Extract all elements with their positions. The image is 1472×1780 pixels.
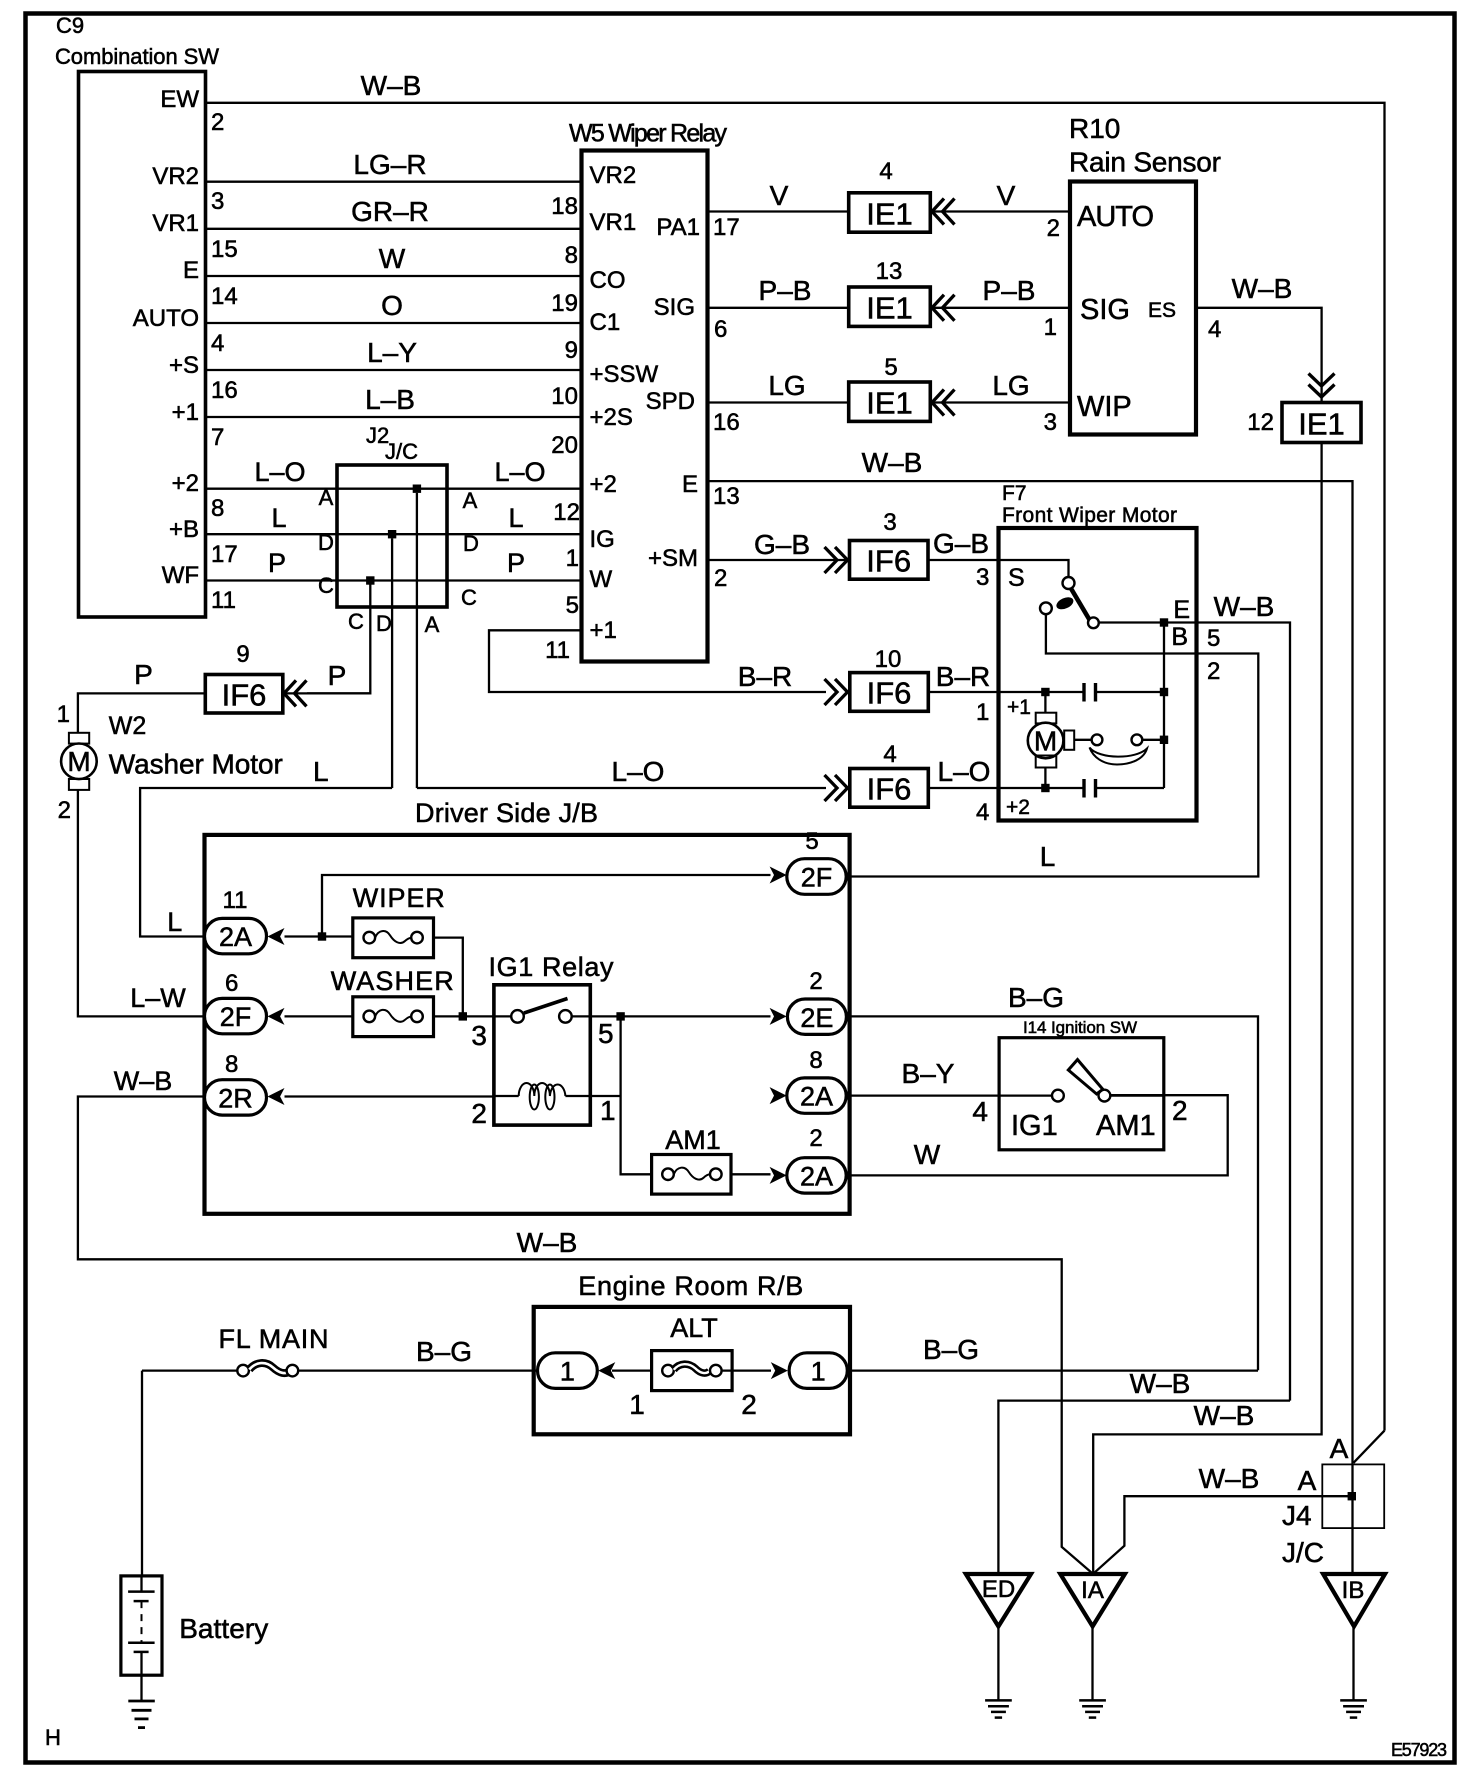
fuse WASHER label [331, 966, 454, 996]
svg-text:IE1: IE1 [866, 291, 913, 326]
connector IE1 (PA1 row) [849, 193, 931, 232]
svg-text:VR2: VR2 [590, 162, 637, 189]
svg-text:+2: +2 [1006, 796, 1030, 819]
svg-text:P: P [268, 548, 286, 578]
node capacitor-E vertical junction [1160, 688, 1168, 696]
svg-text:+S: +S [169, 352, 199, 379]
wire S to park switch contact [999, 560, 1069, 577]
svg-text:AUTO: AUTO [1077, 201, 1154, 233]
connector number 11 above 2A [223, 887, 248, 914]
combination switch box C9 [79, 72, 206, 618]
rain sensor box R10 [1070, 182, 1196, 435]
svg-text:AM1: AM1 [665, 1125, 721, 1155]
svg-text:M: M [67, 746, 90, 777]
pin E [183, 257, 199, 284]
connector 2A (wiper feed) [205, 918, 267, 953]
junction connector J2 J/C box [337, 465, 447, 607]
connector 2A 8 [787, 1078, 846, 1113]
svg-text:13: 13 [876, 258, 903, 285]
connector IE1 12 [1282, 403, 1361, 443]
J2 bottom terminal letter D [376, 611, 392, 636]
svg-text:10: 10 [875, 646, 902, 673]
wire from IG1 pin 1 down to AM1 fuse [590, 1016, 651, 1174]
park switch arm [1071, 589, 1092, 625]
svg-text:AM1: AM1 [1096, 1110, 1156, 1142]
svg-text:2: 2 [1172, 1095, 1188, 1126]
rain pin WIP [1077, 391, 1132, 423]
svg-text:1: 1 [1044, 314, 1057, 341]
svg-text:+1: +1 [1007, 696, 1031, 719]
svg-text:4: 4 [883, 741, 896, 768]
svg-text:B: B [1171, 623, 1188, 651]
W5 pin number 18 [551, 193, 578, 220]
W5 pin +2 [590, 471, 617, 498]
arrow male into 2A 2 [770, 1167, 787, 1184]
W5 pin number 12 [553, 499, 580, 526]
svg-text:3: 3 [471, 1020, 487, 1051]
IG1 pin number 5 [598, 1018, 614, 1049]
chevron female left (IE1 PA1) [932, 199, 955, 225]
pin number 4 (I14 IG1) [972, 1096, 988, 1127]
svg-text:2: 2 [471, 1098, 487, 1129]
svg-text:CO: CO [590, 267, 626, 294]
svg-text:L–Y: L–Y [367, 337, 417, 368]
park switch contact S [1063, 577, 1075, 589]
ignition pin AM1 label [1096, 1110, 1156, 1142]
pin number 7 (+1) [211, 424, 224, 451]
svg-text:EW: EW [160, 86, 199, 113]
wire from 2R to IG1 relay pin 2 [285, 1095, 494, 1097]
W5 pin number 17 [713, 214, 740, 241]
W5 pin +1 [590, 617, 617, 644]
capacitor lower (F7) [1084, 779, 1164, 798]
svg-text:2: 2 [714, 565, 727, 592]
svg-text:VR1: VR1 [590, 209, 637, 236]
W5 pin +SSW [590, 361, 659, 388]
fusible link FL MAIN label [219, 1324, 329, 1354]
fuse AM1 [652, 1155, 731, 1195]
svg-text:A: A [425, 612, 440, 637]
svg-text:5: 5 [805, 828, 818, 855]
wire W-B from IE1 12 down to IA branch [1093, 443, 1321, 1574]
svg-text:B–R: B–R [936, 661, 990, 692]
svg-text:P: P [507, 548, 525, 578]
svg-text:V: V [997, 180, 1016, 211]
svg-text:W–B: W–B [517, 1227, 578, 1258]
wire W (E to CO) [206, 243, 582, 276]
svg-text:4: 4 [211, 330, 224, 357]
W5 pin IG [590, 526, 615, 553]
connector number 4 above IE1 [879, 158, 892, 185]
worm crescent [1090, 748, 1148, 765]
chevron male right (IF6 10) [825, 679, 848, 705]
svg-text:W–B: W–B [1214, 591, 1275, 622]
arrow male into connector 1 right [771, 1362, 788, 1379]
ground triangle IB [1323, 1574, 1385, 1626]
svg-text:2R: 2R [218, 1084, 253, 1114]
svg-text:W: W [914, 1139, 941, 1170]
svg-text:B–G: B–G [1008, 982, 1064, 1013]
svg-text:W: W [379, 243, 406, 274]
washer motor M symbol [61, 733, 97, 790]
svg-text:SIG: SIG [654, 294, 695, 321]
node wiper fuse junction [318, 932, 326, 940]
F7 +1 label [1007, 696, 1031, 719]
pin number 4 (F7 +2) [976, 799, 989, 826]
svg-text:4: 4 [1208, 316, 1221, 343]
svg-text:2A: 2A [219, 922, 252, 952]
wire W-B from EW to right side [206, 70, 1385, 1463]
battery [121, 1576, 162, 1675]
pin EW [160, 86, 199, 113]
wire P from IF6 9 to washer motor [78, 659, 205, 733]
node E junction [1160, 618, 1168, 626]
W5 pin number 5 [566, 592, 579, 619]
vertical bus inside F7 [1163, 623, 1165, 789]
chevron male down (IE1 12) [1309, 374, 1335, 398]
wire LG from IE1 to rain sensor WIP [930, 370, 1070, 403]
chevron male right (IF6 4) [825, 775, 848, 801]
svg-text:D: D [463, 531, 479, 556]
svg-text:L: L [313, 756, 329, 787]
svg-text:IF6: IF6 [867, 676, 912, 711]
wire AM1 fuse to 2A 2 [731, 1173, 771, 1175]
svg-text:IA: IA [1081, 1577, 1104, 1604]
pin number 14 (E) [211, 283, 238, 310]
svg-text:8: 8 [565, 242, 578, 269]
svg-text:IF6: IF6 [222, 677, 267, 712]
wire from WIPER fuse to relay branch [434, 938, 463, 1017]
svg-text:F7: F7 [1002, 482, 1027, 505]
svg-text:VR2: VR2 [152, 163, 199, 190]
pin number 3 (VR2) [211, 188, 224, 215]
svg-text:B–Y: B–Y [902, 1058, 955, 1089]
svg-text:C9: C9 [56, 13, 84, 38]
svg-text:9: 9 [236, 641, 249, 668]
svg-text:W: W [590, 566, 613, 593]
connector 2F 5 [787, 859, 846, 895]
pin number 3 (rain WIP) [1044, 409, 1057, 436]
W5 pin +2S [590, 404, 633, 431]
svg-text:2: 2 [809, 1125, 822, 1152]
svg-text:W–B: W–B [1194, 1400, 1255, 1431]
svg-text:2A: 2A [800, 1082, 833, 1112]
chevron female left (IF6 9) [284, 680, 307, 706]
connector IF6 (B-R row) [850, 673, 929, 712]
svg-text:L: L [167, 907, 182, 937]
svg-text:LG: LG [768, 370, 805, 401]
svg-text:W5 Wiper Relay: W5 Wiper Relay [569, 120, 728, 148]
pin number 2 (rain AUTO) [1047, 215, 1060, 242]
fuse WASHER [353, 997, 434, 1037]
svg-text:E: E [682, 471, 698, 498]
svg-text:IG1 Relay: IG1 Relay [489, 952, 615, 982]
W5 pin number 6 [714, 316, 727, 343]
front wiper motor box F7 [999, 528, 1197, 821]
svg-text:W2: W2 [109, 712, 147, 740]
J2 terminal letter D right [463, 531, 479, 556]
relay W5 Wiper Relay label [569, 120, 728, 148]
IG1 relay switch arm [524, 999, 568, 1014]
svg-text:G–B: G–B [933, 528, 989, 559]
svg-text:L–B: L–B [365, 384, 415, 415]
svg-text:WIP: WIP [1077, 391, 1132, 423]
pin number 1 (rain SIG) [1044, 314, 1057, 341]
svg-text:L–O: L–O [938, 756, 991, 787]
wire from 2A to WIPER fuse [285, 935, 353, 937]
svg-text:P–B: P–B [759, 275, 812, 306]
wire from FL MAIN down to battery [141, 1371, 143, 1576]
svg-text:4: 4 [976, 799, 989, 826]
connector 2E [787, 999, 846, 1034]
svg-text:ES: ES [1148, 299, 1176, 322]
wire G-B from IF6 to F7 S pin [928, 528, 999, 560]
relay IG1 box [494, 985, 590, 1125]
connector IF6 (L-O row) [850, 769, 929, 808]
svg-text:Battery: Battery [179, 1613, 268, 1644]
page letter H [45, 1725, 61, 1750]
pin number 2 (I14 AM1) [1172, 1095, 1188, 1126]
svg-text:16: 16 [211, 377, 238, 404]
ground triangle IA [1060, 1574, 1125, 1626]
node washer-wiper junction [459, 1012, 467, 1020]
J2 terminal letter D left [318, 530, 334, 555]
svg-text:Engine Room R/B: Engine Room R/B [578, 1271, 803, 1301]
connector 2R [205, 1080, 267, 1115]
connector number 4 above IF6 [883, 741, 896, 768]
wire W-B from ED branch to ED ground [998, 1368, 1290, 1573]
ground ED [985, 1700, 1012, 1717]
svg-text:3: 3 [883, 509, 896, 536]
svg-text:+SSW: +SSW [590, 361, 659, 388]
wire to ALT fuse [612, 1369, 652, 1371]
svg-text:IE1: IE1 [866, 197, 913, 232]
J4 J/C label [1282, 1537, 1324, 1568]
wiper motor M symbol [1028, 692, 1074, 788]
ground IB [1340, 1700, 1367, 1717]
wire IB to ground [1352, 1626, 1354, 1700]
wire W from ignition AM1 to 2A 2 [846, 1095, 1227, 1175]
park switch moving blob [1055, 595, 1076, 612]
connector number 8 above 2A [225, 1051, 238, 1078]
svg-text:IF6: IF6 [867, 772, 912, 807]
wire P from J2 C to IF6 9 [284, 660, 370, 693]
svg-text:5: 5 [1207, 625, 1220, 652]
arrow female at connector 1 [598, 1362, 615, 1379]
svg-text:3: 3 [211, 188, 224, 215]
IG1 pin number 3 [471, 1020, 487, 1051]
wire V from PA1 to IE1 [708, 180, 849, 212]
IG1 relay contact right [559, 1010, 590, 1023]
wire LG from SPD to IE1 [708, 370, 849, 403]
svg-text:IF6: IF6 [866, 544, 911, 579]
svg-text:1: 1 [811, 1357, 826, 1387]
chevron female left (IE1 SIG) [932, 295, 955, 321]
pin number 1 (ALT left) [629, 1389, 645, 1420]
connector number 5 above 2F [805, 828, 818, 855]
W5 pin number 1 [566, 545, 579, 572]
svg-text:IG1: IG1 [1011, 1110, 1058, 1142]
battery label [179, 1613, 268, 1644]
wire label L-W [130, 983, 186, 1013]
wire from ignition AM1 contact to box edge [1110, 1094, 1164, 1096]
svg-text:20: 20 [551, 432, 578, 459]
wire W-B from 2R to IA ground [78, 1066, 1092, 1573]
svg-text:VR1: VR1 [152, 210, 199, 237]
pin +1 [172, 399, 199, 426]
pin number 2 (washer motor) [58, 797, 71, 824]
svg-text:WIPER: WIPER [353, 883, 445, 913]
W5 pin VR2 [590, 162, 637, 189]
wire L-O from IF6 to F7 +2 [928, 756, 998, 788]
wire P (WF row through J2) [206, 548, 582, 581]
arrow male into 2F 5 [770, 867, 787, 884]
svg-text:C: C [318, 573, 334, 598]
svg-text:7: 7 [211, 424, 224, 451]
svg-text:IE1: IE1 [1298, 407, 1345, 442]
svg-text:5: 5 [598, 1018, 614, 1049]
W5 pin number 2 [714, 565, 727, 592]
wire V from IE1 to rain sensor AUTO [930, 180, 1070, 212]
wire +2 row inside F7 [999, 787, 1085, 789]
svg-text:Combination SW: Combination SW [55, 44, 219, 69]
fuse ALT (fusible link) [652, 1351, 733, 1391]
W5 pin +SM [648, 545, 698, 572]
wire P-B from IE1 to rain sensor SIG [930, 275, 1070, 308]
pin number 4 (AUTO) [211, 330, 224, 357]
wire L (+B row through J2) [206, 503, 582, 534]
ground IA [1079, 1700, 1106, 1717]
pin +S [169, 352, 199, 379]
svg-text:5: 5 [566, 592, 579, 619]
figure number E57923 [1391, 1740, 1447, 1760]
junction connector J2 label [366, 423, 418, 464]
pin number 2 (EW) [211, 109, 224, 136]
svg-text:Washer Motor: Washer Motor [109, 749, 283, 780]
W5 pin number 19 [551, 290, 578, 317]
svg-text:B–R: B–R [738, 661, 792, 692]
ignition pin IG1 label [1011, 1110, 1058, 1142]
driver side J/B box [205, 835, 850, 1214]
svg-text:2: 2 [1207, 658, 1220, 685]
svg-text:IB: IB [1342, 1577, 1365, 1604]
W5 pin number 13 [713, 483, 740, 510]
connector IF6 (G-B row) [850, 541, 929, 580]
W5 pin W [590, 566, 613, 593]
svg-text:A: A [319, 485, 334, 510]
wire W-B from F7 E pin 5 down to ED branch [1197, 591, 1291, 1401]
svg-text:+2S: +2S [590, 404, 633, 431]
J4 terminal letter A left [1298, 1465, 1317, 1496]
park switch contact B [1040, 602, 1052, 614]
svg-text:1: 1 [600, 1095, 616, 1126]
svg-text:2F: 2F [220, 1002, 252, 1032]
connector number 9 above IF6 [236, 641, 249, 668]
svg-text:E: E [1173, 596, 1190, 624]
pin AUTO [133, 305, 199, 332]
svg-text:11: 11 [545, 637, 570, 664]
svg-text:J/C: J/C [1282, 1537, 1324, 1568]
svg-text:WF: WF [162, 562, 199, 589]
svg-text:LG–R: LG–R [353, 149, 426, 180]
pin number 2 (ALT right) [741, 1389, 757, 1420]
wire L-O (+2 row through J2) [206, 457, 582, 489]
pin number 17 (+B) [211, 541, 238, 568]
W5 pin SIG [654, 294, 695, 321]
svg-text:H: H [45, 1725, 61, 1750]
svg-text:17: 17 [713, 214, 740, 241]
wire D vertical from J2 to L wire [391, 538, 393, 788]
pin number 16 (+S) [211, 377, 238, 404]
pin number 15 (VR1) [211, 236, 238, 263]
svg-text:M: M [1034, 726, 1057, 757]
svg-text:V: V [770, 180, 789, 211]
svg-text:Driver Side J/B: Driver Side J/B [415, 798, 598, 828]
arrow female at 2R [268, 1088, 285, 1105]
svg-text:L: L [271, 503, 286, 533]
wire G-B from W5 +SM to IF6 [708, 529, 850, 560]
svg-text:8: 8 [225, 1051, 238, 1078]
wire O (AUTO to C1) [206, 290, 582, 323]
svg-text:1: 1 [566, 545, 579, 572]
connector number 3 above IF6 [883, 509, 896, 536]
W5 pin number 11 [545, 637, 570, 664]
J2 terminal letter C left [318, 573, 334, 598]
connector label C9 [56, 13, 84, 38]
junction connector J4 box [1322, 1464, 1384, 1528]
wire L-B (+1 to +2S) [206, 384, 582, 417]
svg-text:1: 1 [57, 701, 70, 728]
connector number 6 above 2F [225, 970, 238, 997]
connector IE1 (SIG row) [849, 287, 931, 326]
pin number 3 (F7 S) [976, 564, 989, 591]
IG1 pin number 1 [600, 1095, 616, 1126]
svg-text:6: 6 [225, 970, 238, 997]
svg-text:+SM: +SM [648, 545, 698, 572]
wire ALT to connector 1 right [722, 1369, 771, 1371]
washer motor label [109, 749, 283, 780]
svg-text:IE1: IE1 [866, 386, 913, 421]
connector number 12 [1247, 409, 1274, 436]
svg-text:2F: 2F [801, 863, 833, 893]
svg-text:15: 15 [211, 236, 238, 263]
W5 pin number 20 [551, 432, 578, 459]
svg-text:C: C [348, 609, 364, 634]
F7 pin E label [1173, 596, 1190, 624]
connector IF6 9 (washer P) [205, 675, 282, 714]
svg-text:A: A [1298, 1465, 1317, 1496]
wire B-R from IF6 to F7 +1 [928, 661, 998, 692]
svg-text:LG: LG [992, 370, 1029, 401]
svg-text:IG: IG [590, 526, 615, 553]
worm gear contacts [1074, 734, 1164, 745]
svg-text:6: 6 [714, 316, 727, 343]
capacitor upper (F7) [1084, 683, 1164, 702]
motor Front Wiper Motor label [1002, 504, 1177, 527]
F7 pin B label [1171, 623, 1188, 651]
svg-text:E: E [183, 257, 199, 284]
svg-text:12: 12 [553, 499, 580, 526]
svg-text:Rain Sensor: Rain Sensor [1069, 147, 1221, 178]
fuse WIPER [353, 918, 434, 958]
pin VR1 [152, 210, 199, 237]
W5 pin number 9 [565, 337, 578, 364]
F7 +2 label [1006, 796, 1030, 819]
svg-text:2: 2 [211, 109, 224, 136]
svg-text:2: 2 [1047, 215, 1060, 242]
arrow male into 2E [770, 1008, 787, 1025]
node +2 junction [1041, 784, 1049, 792]
